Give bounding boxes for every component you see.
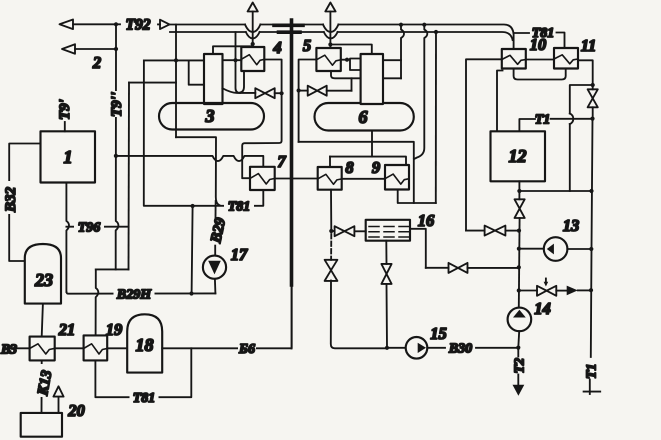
label T1 bottom [585, 363, 600, 379]
wire steam header 1 [170, 23, 514, 49]
valve V9 [381, 264, 391, 350]
label B6 [238, 341, 256, 357]
label 14 [534, 299, 551, 318]
label 3 [205, 106, 215, 126]
label 9 [372, 158, 380, 177]
label B29N [114, 286, 155, 303]
wire HX5 left port [297, 60, 317, 142]
label B32 [3, 181, 20, 214]
vent V-A unit1 [248, 3, 258, 47]
pump 14 [508, 308, 532, 348]
wire T81 bottom loop [95, 348, 191, 397]
boiler unit 1 [204, 54, 223, 104]
wire HX4 right riser [242, 60, 281, 179]
pump 13 [519, 237, 591, 261]
wire divider tail to B6 [291, 285, 293, 348]
wire drum6 lower header [299, 131, 414, 203]
svg-text:3: 3 [205, 106, 215, 126]
wire right main line [589, 119, 594, 357]
wire header1 drop at 401 [401, 25, 404, 79]
svg-text:11: 11 [581, 36, 597, 55]
wire B6 line [162, 285, 292, 348]
wire HX10 HX11 link [526, 59, 554, 61]
wire T81 drain line [144, 60, 263, 208]
wire tank16 bottom drain [385, 241, 387, 264]
heat exchanger 8 [318, 167, 342, 190]
label T81 top [532, 26, 555, 41]
pump 17 [203, 256, 226, 279]
wire T92 branch down x176 [175, 25, 177, 138]
svg-text:23: 23 [34, 270, 53, 290]
wire HX10-11 bottom loop [514, 69, 566, 80]
svg-text:Т81: Т81 [133, 391, 156, 406]
svg-text:12: 12 [509, 146, 527, 166]
label 15 [430, 324, 447, 343]
wire B29 pump riser [214, 206, 216, 256]
heat exchanger 21 [30, 337, 55, 361]
label B3 [0, 343, 17, 358]
svg-text:17: 17 [231, 245, 248, 264]
label 13 [563, 216, 580, 235]
vessel 18 [127, 314, 162, 372]
svg-text:Т1: Т1 [535, 113, 551, 128]
svg-text:18: 18 [136, 335, 154, 355]
label 16 [418, 211, 435, 230]
svg-text:20: 20 [67, 401, 85, 420]
heat exchanger 10 [502, 49, 526, 69]
wire 12 to right main [519, 190, 591, 192]
wire HX8 drain column [329, 190, 333, 260]
valve V3 [588, 89, 598, 120]
wire header2 drop unit1 [236, 32, 241, 93]
label B30 [448, 342, 472, 357]
svg-text:Т9': Т9' [57, 99, 73, 120]
wire boiler1 to HX4 [223, 58, 242, 62]
svg-text:16: 16 [418, 211, 435, 230]
heat exchanger 11 [554, 48, 578, 69]
label T81 mid [224, 198, 254, 215]
boiler unit 2 [361, 54, 383, 104]
label 19 [106, 320, 123, 339]
wire HX10 drain to 12 [497, 71, 503, 132]
svg-text:9: 9 [372, 158, 380, 177]
svg-text:Т1: Т1 [585, 363, 600, 379]
valve V2 [299, 86, 352, 96]
drum 3 [159, 103, 264, 130]
wire tank16 right outlet [410, 229, 426, 268]
wire unit1 condensate x66 [66, 183, 69, 293]
label 21 [58, 320, 76, 339]
wire HX5 to boiler2 [341, 58, 361, 70]
valve V5 [466, 226, 519, 236]
svg-text:В29Н: В29Н [116, 288, 152, 303]
wire T96 line [66, 226, 128, 228]
svg-text:Т92: Т92 [126, 17, 151, 34]
node T2 [513, 348, 525, 396]
label T96 [74, 220, 104, 236]
label 18 [136, 335, 154, 355]
label 10 [530, 35, 547, 54]
label T81 bottom [130, 390, 159, 407]
vessel 23 [25, 244, 61, 304]
apparatus 12 [491, 131, 546, 181]
wire T92 line left with arrows [60, 20, 170, 54]
label K13 [35, 364, 56, 398]
label 11 [581, 36, 597, 55]
wire feedwater step [96, 268, 129, 270]
apparatus 20 [21, 413, 62, 437]
label 8 [345, 158, 353, 177]
section divider bar [274, 20, 303, 285]
wire bypass x570 [570, 85, 593, 191]
vent arrow box20 [53, 386, 63, 413]
svg-text:2: 2 [92, 53, 101, 72]
svg-text:В32: В32 [3, 186, 19, 213]
wire HX9 bottom loop [398, 190, 436, 203]
label 20 [67, 401, 85, 420]
wire HX7 feed y156 [116, 156, 263, 167]
wire HX19 riser [96, 269, 99, 335]
svg-text:19: 19 [106, 320, 123, 339]
wire T9' stub [64, 122, 66, 131]
wire header1 drop at 424 [414, 25, 427, 159]
svg-text:Б6: Б6 [238, 342, 255, 357]
svg-text:14: 14 [534, 299, 551, 318]
label T9' [57, 99, 73, 120]
wire B30 line [476, 346, 520, 350]
wire HX7 to HX8 [275, 178, 318, 180]
drum 6 [315, 103, 414, 131]
svg-text:5: 5 [303, 36, 311, 55]
svg-text:6: 6 [359, 107, 368, 127]
wire HX11 outlet [578, 60, 595, 89]
valve V7 [331, 226, 365, 236]
wire economizer feed line [330, 157, 406, 167]
wire HX5 drain [331, 71, 401, 91]
label 23 [34, 270, 53, 290]
wire left feed to boiler1 [144, 58, 204, 84]
wire T1 line [519, 119, 592, 132]
wire drum3 lower header [176, 137, 220, 206]
wire tank12 drain [517, 181, 521, 199]
valve V1 [255, 88, 283, 98]
label 17 [231, 245, 248, 264]
wire deaerator column [517, 218, 521, 308]
wire pump17 discharge [214, 279, 217, 294]
wire T81 top branch [514, 33, 565, 49]
svg-text:7: 7 [277, 152, 286, 171]
heat exchanger 19 [84, 335, 108, 360]
valve V4 [515, 199, 525, 218]
tank 16 [366, 220, 410, 241]
wire turbine1 steam lead [213, 44, 253, 54]
wire vessel23 drain [42, 304, 43, 337]
svg-text:4: 4 [272, 38, 281, 57]
svg-text:Т81: Т81 [228, 200, 251, 215]
label 6 [359, 107, 368, 127]
apparatus 1 [41, 131, 96, 182]
label 5 [303, 36, 311, 55]
wire header2 drop at 436 [435, 32, 437, 203]
node T1 bottom [584, 380, 601, 395]
svg-text:Т9'': Т9'' [109, 92, 125, 117]
heat exchanger 9 [385, 165, 409, 190]
label 12 [509, 146, 527, 166]
wire B3 line [10, 347, 127, 349]
label T92 [126, 17, 151, 34]
wire steam header 2 [170, 30, 513, 40]
heat exchanger 5 [316, 48, 340, 71]
heat exchanger 7 [250, 167, 275, 190]
svg-text:Т2: Т2 [513, 358, 528, 374]
label T9'' [109, 91, 125, 117]
label T1 top [535, 113, 551, 128]
vent V-B unit2 [325, 3, 335, 47]
wire K13 line [41, 360, 43, 413]
heat exchanger 4 [241, 47, 264, 71]
svg-text:15: 15 [430, 324, 447, 343]
svg-text:Т96: Т96 [78, 221, 101, 236]
wire HX10 left feed [466, 59, 502, 230]
wire T81 riser to B29H [192, 206, 193, 294]
wire B32 line [9, 144, 40, 262]
wire boiler2 right port [383, 59, 401, 61]
svg-text:В30: В30 [448, 342, 472, 357]
label T2 [513, 358, 528, 374]
wire boiler1 exhaust [223, 88, 256, 93]
wire turbine2 steam lead [330, 45, 371, 55]
pump 15 [387, 337, 445, 359]
svg-text:21: 21 [58, 320, 76, 339]
check valve arrow [567, 286, 591, 296]
svg-text:10: 10 [530, 35, 547, 54]
wire HX4 drain [240, 71, 244, 93]
wire crossover y82 [129, 82, 176, 84]
label 7 [277, 152, 286, 171]
wire long line x129 [128, 83, 131, 270]
svg-text:ВЗ: ВЗ [0, 343, 17, 358]
svg-text:1: 1 [64, 147, 73, 167]
label B29 [208, 216, 229, 245]
label 1 [64, 147, 73, 167]
wire HX8 to HX9 [342, 178, 385, 180]
wire B29N line [66, 291, 215, 295]
valve V6 with actuator [519, 279, 567, 296]
svg-text:8: 8 [345, 158, 353, 177]
svg-text:13: 13 [563, 216, 580, 235]
valve V10 [426, 263, 519, 273]
label 2 [92, 53, 101, 72]
label 4 [272, 38, 281, 57]
valve V8 [325, 260, 387, 349]
wire arrows riser x116 [114, 49, 119, 269]
